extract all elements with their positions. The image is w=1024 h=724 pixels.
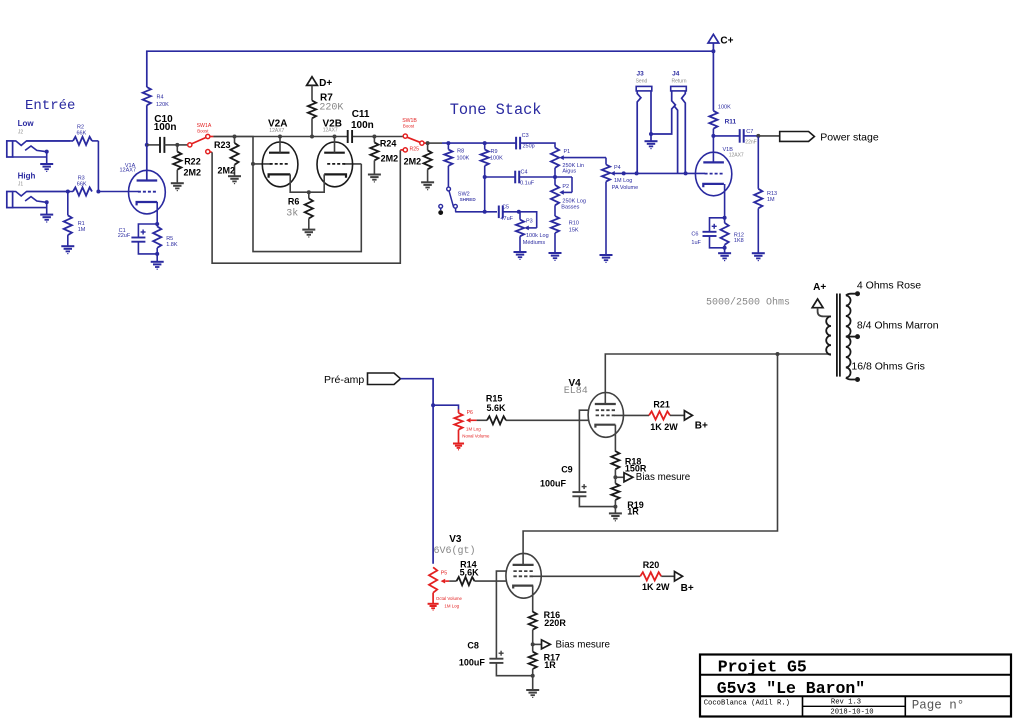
node P6 branch [431, 403, 435, 407]
svg-text:B+: B+ [695, 420, 708, 431]
svg-text:A+: A+ [813, 282, 826, 293]
capacitor C6 1uF [691, 224, 716, 246]
svg-text:C9: C9 [561, 464, 573, 474]
node bias tap V3 [531, 642, 535, 646]
wire R4 to plate/C10 node [146, 105, 148, 180]
wire R9 bottom bus [484, 177, 486, 212]
svg-text:P1: P1 [564, 149, 571, 155]
svg-text:R21: R21 [653, 400, 670, 410]
svg-text:P2: P2 [562, 184, 569, 190]
svg-text:120K: 120K [156, 102, 169, 108]
jack J3 Send [636, 71, 652, 174]
ground P5 (red) [428, 603, 439, 605]
svg-text:P4: P4 [614, 165, 621, 171]
wire V4 cathode to R18 [614, 425, 616, 452]
potentiometer P1 250K Lin Aigus [551, 148, 606, 175]
svg-text:2M2: 2M2 [381, 153, 399, 163]
svg-text:1M Log: 1M Log [444, 603, 459, 608]
node P1/P2/C4 junction [553, 175, 557, 179]
wire V4 screen to R21 [615, 414, 650, 416]
svg-text:C3: C3 [522, 133, 529, 139]
svg-text:Power stage: Power stage [820, 131, 879, 143]
svg-text:2018-10-10: 2018-10-10 [830, 709, 873, 717]
node junction R1 on grid line [66, 190, 70, 194]
svg-text:1K8: 1K8 [734, 238, 744, 244]
wire C+ to R11 [712, 51, 714, 111]
wire C6 bottom [710, 236, 725, 248]
svg-text:Bias mesure: Bias mesure [636, 472, 691, 483]
wire V2A grid [253, 163, 272, 165]
pentode V3 6V6(gt) [434, 534, 542, 598]
ground V1B cathode [718, 252, 731, 254]
svg-text:16/8 Ohms Gris: 16/8 Ohms Gris [851, 361, 925, 373]
svg-text:250K Log: 250K Log [562, 198, 586, 204]
svg-text:100k Log: 100k Log [526, 233, 549, 239]
svg-text:PA Volume: PA Volume [612, 185, 639, 191]
node R23 junction [233, 135, 237, 139]
node C7/R13 junction [756, 134, 760, 138]
resistor R13 1M [754, 136, 777, 253]
wire V2B plate stub [334, 137, 336, 153]
svg-text:15K: 15K [569, 228, 579, 234]
svg-text:Octal Volume: Octal Volume [436, 596, 463, 601]
svg-text:R24: R24 [380, 138, 397, 148]
svg-text:R4: R4 [157, 95, 164, 101]
wire C8 bottom to ground node [496, 663, 532, 676]
resistor R6 3k [286, 192, 313, 229]
wire V4 g3 to C9 [579, 410, 588, 492]
svg-text:J2: J2 [18, 129, 24, 135]
svg-text:Basses: Basses [561, 205, 579, 211]
node bias tap V4 [613, 475, 617, 479]
svg-text:5.6K: 5.6K [460, 567, 480, 577]
resistor R14 5.6K [449, 559, 479, 585]
node P4 wiper junction [622, 171, 626, 175]
svg-text:B+: B+ [681, 583, 694, 594]
tap 16/8 Ohms (Gris) [846, 361, 925, 382]
resistor R12 1K8 [721, 218, 744, 253]
svg-text:1M Log: 1M Log [614, 178, 632, 184]
svg-text:5000/2500 Ohms: 5000/2500 Ohms [706, 296, 790, 308]
svg-text:C6: C6 [691, 231, 698, 237]
wire C1 bottom [138, 242, 157, 254]
svg-text:CocoBlanca (Adil R.): CocoBlanca (Adil R.) [704, 699, 790, 707]
resistor R17 1R [529, 644, 561, 690]
wire cathode to C1 [138, 224, 157, 238]
node R6 junction [307, 190, 311, 194]
svg-text:Aigus: Aigus [562, 168, 576, 174]
node V2A grid junction [251, 162, 255, 166]
node C10 junction [145, 143, 149, 147]
power symbol D+ [307, 77, 333, 101]
wire V3 cathode to R16 [532, 586, 534, 613]
wire grid line to V1A [98, 191, 138, 193]
switch SW2 SHRED [447, 187, 477, 212]
ground R23 [228, 175, 241, 177]
svg-text:100K: 100K [490, 156, 503, 162]
wire R2 to High line [97, 141, 99, 192]
node C+ rail junction [711, 49, 715, 53]
node R7 plate junction [310, 135, 314, 139]
tap 4 Ohms (Rose) [846, 279, 921, 296]
wire boost bypass loop (outer) [212, 150, 400, 263]
wire C+ rail [147, 51, 714, 87]
wire V3 screen to R20 [532, 575, 640, 577]
wire V2A plate stub [279, 137, 281, 153]
svg-text:R20: R20 [643, 560, 660, 570]
ground P3 [514, 251, 527, 253]
svg-text:100n: 100n [154, 122, 177, 133]
potentiometer P4 1M Log PA Volume [602, 165, 638, 191]
svg-text:0.1uF: 0.1uF [520, 181, 535, 187]
svg-text:220R: 220R [544, 618, 566, 628]
ground R22 [171, 182, 184, 184]
svg-text:G5v3 "Le Baron": G5v3 "Le Baron" [717, 679, 866, 698]
resistor R19 1R [611, 477, 644, 516]
potentiometer P3 100k Log Mediums [516, 212, 549, 252]
ground V4 cathode [609, 512, 622, 514]
svg-text:P6: P6 [467, 410, 473, 416]
switch SW1A Boost [177, 123, 213, 154]
svg-text:C+: C+ [720, 36, 733, 47]
svg-text:High: High [18, 172, 36, 181]
node R24 junction [372, 135, 376, 139]
svg-text:4 Ohms Rose: 4 Ohms Rose [857, 279, 921, 291]
wire SW1B common to tone stack [428, 142, 442, 144]
wire R14 to V3 grid [475, 580, 507, 582]
svg-text:R8: R8 [457, 149, 464, 155]
wire V3 g3 to C8 [496, 571, 506, 659]
resistor R10 15K [551, 216, 579, 253]
svg-text:P5: P5 [441, 571, 447, 577]
svg-text:Entrée: Entrée [25, 98, 75, 114]
wire grid net P4 to V1B [624, 172, 705, 174]
triode V2A 12AX7 [262, 119, 298, 187]
wire V1B cathode [724, 184, 726, 218]
svg-text:100n: 100n [351, 120, 374, 131]
ground V3 cathode [526, 689, 539, 691]
node J3 sleeve junction [649, 132, 653, 136]
capacitor C1 22uF [118, 228, 146, 242]
wire P4 bottom to ground [605, 182, 607, 255]
resistor R8 100K [444, 143, 469, 187]
capacitor C8 100uF [459, 640, 504, 667]
ground P6 (red) [453, 443, 464, 445]
svg-text:1R: 1R [544, 660, 556, 670]
tap 8/4 Ohms (Marron) [846, 319, 939, 339]
title block frame [700, 655, 1011, 717]
svg-text:66K: 66K [77, 181, 87, 187]
node R9 top [483, 141, 487, 145]
svg-text:1uF: 1uF [691, 240, 701, 246]
svg-text:1K 2W: 1K 2W [642, 582, 670, 592]
svg-text:R5: R5 [166, 236, 173, 242]
arrow B+ (V3) [675, 572, 694, 594]
resistor R15 5.6K [477, 394, 506, 425]
svg-text:Pré-amp: Pré-amp [324, 374, 364, 386]
svg-text:Return: Return [672, 78, 687, 84]
svg-text:100uF: 100uF [459, 657, 486, 667]
svg-text:220K: 220K [319, 103, 343, 114]
svg-text:R6: R6 [288, 197, 300, 207]
svg-text:Noval Volume: Noval Volume [462, 433, 490, 438]
wire V4 plate to transformer [605, 354, 831, 404]
svg-text:R15: R15 [486, 394, 503, 404]
svg-text:250p: 250p [523, 144, 535, 150]
potentiometer P2 250K Log Basses [551, 177, 586, 211]
triode V2B 12AX7 [317, 119, 353, 187]
switch SW1B Boost [374, 118, 427, 152]
ground V1A cathode [151, 261, 164, 263]
node J3 tip junction [635, 171, 639, 175]
svg-text:SHRED: SHRED [460, 197, 477, 202]
svg-text:12AX7: 12AX7 [269, 128, 284, 134]
capacitor C10 100n [147, 114, 178, 153]
svg-text:22nF: 22nF [745, 140, 756, 146]
jack J1 (High input) [7, 192, 70, 223]
svg-text:47uF: 47uF [501, 216, 514, 222]
resistor R20 1K 2W [640, 560, 674, 592]
svg-text:1M: 1M [78, 227, 86, 233]
svg-text:D+: D+ [319, 78, 332, 89]
transformer T1 primary 5000/2500 Ohms [706, 296, 831, 354]
wire V2A cathode to R6 [290, 174, 309, 192]
svg-text:12AX7: 12AX7 [729, 153, 744, 159]
node transformer junction [776, 352, 780, 356]
svg-text:Page n°: Page n° [912, 699, 965, 713]
svg-text:Médiums: Médiums [523, 240, 546, 246]
connector pins SW2 [438, 204, 443, 215]
svg-text:22uF: 22uF [118, 233, 131, 239]
node C4 junction [483, 175, 487, 179]
svg-text:R25: R25 [410, 146, 420, 152]
arrow B+ (V4) [684, 411, 708, 432]
resistor R25 2M2 [404, 143, 432, 182]
resistor R18 150R [611, 451, 647, 477]
resistor R23 2M2 [214, 137, 239, 177]
wire Pre-amp to volume pots [401, 379, 434, 564]
svg-text:1R: 1R [627, 506, 639, 516]
ground P4 [600, 254, 613, 256]
svg-text:C8: C8 [467, 640, 479, 650]
svg-text:2M2: 2M2 [218, 166, 236, 176]
svg-text:100K: 100K [457, 155, 470, 161]
node R11/C7 junction [711, 134, 715, 138]
potentiometer P5 1M Log Octal Volume [429, 567, 463, 608]
svg-text:Bias mesure: Bias mesure [556, 639, 611, 650]
wire SW2 to C5 [455, 211, 497, 213]
ground R25 [421, 181, 434, 183]
svg-text:R22: R22 [184, 157, 201, 167]
svg-text:5.6K: 5.6K [487, 403, 507, 413]
node junction R2/R3 [96, 190, 100, 194]
capacitor C9 100uF [540, 464, 587, 496]
capacitor C11 100n [348, 109, 374, 143]
wire P1 wiper to P4 [605, 158, 607, 165]
triode V1B 12AX7 [695, 147, 744, 196]
wire P2 bottom to R10 [554, 205, 556, 216]
ground R1 [61, 245, 74, 247]
wire C3 to P1 [520, 143, 555, 147]
jack J4 Return [651, 71, 687, 174]
wire V3 plate riser to transformer [523, 354, 777, 565]
resistor R9 100K [481, 143, 504, 177]
node C5 junction [483, 210, 487, 214]
power symbol C+ [708, 34, 734, 51]
resistor R3 66K [27, 175, 93, 195]
svg-text:1M Log: 1M Log [466, 427, 481, 432]
resistor R21 1K 2W [649, 400, 684, 433]
svg-text:Send: Send [636, 78, 648, 84]
svg-text:P3: P3 [526, 218, 533, 224]
svg-text:R23: R23 [214, 140, 231, 150]
svg-text:6V6(gt): 6V6(gt) [434, 545, 476, 557]
svg-text:2M2: 2M2 [184, 168, 202, 178]
svg-text:R9: R9 [491, 149, 498, 155]
ground R13 [752, 252, 765, 254]
wire V2B grid [344, 163, 362, 165]
svg-text:1.8K: 1.8K [166, 242, 178, 248]
svg-text:100K: 100K [718, 104, 731, 110]
svg-text:Boost: Boost [403, 124, 415, 129]
svg-text:12AX7: 12AX7 [323, 128, 338, 134]
wire tone stack input net [442, 142, 516, 144]
wire A+ to primary [818, 308, 831, 317]
node V3 ground junction [531, 674, 535, 678]
node R22 junction [175, 143, 179, 147]
svg-text:66K: 66K [77, 130, 87, 136]
potentiometer P6 1M Log Noval Volume [454, 410, 490, 444]
svg-text:Rev 1.3: Rev 1.3 [831, 698, 861, 706]
wire R15 to V4 grid [506, 419, 588, 421]
resistor R7 220K [308, 93, 344, 137]
resistor R22 2M2 [173, 145, 201, 183]
svg-text:Tone Stack: Tone Stack [450, 101, 542, 119]
svg-text:2M2: 2M2 [404, 157, 422, 167]
resistor R5 1.8K [153, 224, 178, 262]
svg-text:C7: C7 [746, 129, 753, 135]
svg-text:J4: J4 [672, 71, 680, 78]
node V4 ground junction [613, 505, 617, 509]
svg-text:1K 2W: 1K 2W [650, 422, 678, 432]
ground J3 sleeve [650, 134, 652, 141]
ground R24 [368, 174, 381, 176]
wire inner loop V2A grid to V2B grid [253, 164, 361, 252]
resistor R24 2M2 [370, 137, 398, 175]
svg-text:C11: C11 [352, 109, 370, 120]
wire SW1A to R23 and V2 grids [213, 137, 253, 164]
arrow Bias mesure (V3) [533, 639, 611, 650]
node R25 junction [426, 141, 430, 145]
svg-text:C4: C4 [521, 170, 528, 176]
arrow Bias mesure (V4) [615, 472, 690, 483]
tag Power stage [758, 131, 879, 143]
svg-text:12AX7: 12AX7 [120, 168, 137, 174]
resistor R4 120K [143, 87, 169, 108]
svg-text:8/4 Ohms Marron: 8/4 Ohms Marron [857, 319, 939, 331]
svg-text:J3: J3 [637, 71, 645, 78]
svg-text:1M: 1M [767, 197, 775, 203]
wire V1A cathode [156, 202, 158, 224]
wire plate rail V2 [213, 136, 347, 138]
capacitor C5 47uF [499, 205, 519, 223]
resistor R11 100K [709, 104, 736, 163]
svg-text:Projet G5: Projet G5 [718, 658, 807, 677]
triode V1A 12AX7 [120, 163, 166, 214]
svg-text:R11: R11 [725, 119, 737, 126]
tag Pre-amp [324, 373, 401, 386]
ground R6 [302, 229, 315, 231]
resistor R2 66K [27, 124, 99, 145]
capacitor C7 22nF [713, 129, 758, 146]
svg-text:Boost: Boost [197, 129, 209, 134]
capacitor C4 0.1uF [485, 170, 572, 187]
resistor R1 1M [64, 192, 86, 247]
wire C9 bottom to ground node [579, 496, 615, 506]
svg-text:Low: Low [18, 119, 35, 128]
svg-text:V3: V3 [449, 534, 462, 545]
svg-text:EL84: EL84 [564, 386, 588, 397]
wire P1 bottom to P2 top [554, 168, 556, 185]
svg-text:C5: C5 [502, 205, 509, 211]
wire cathode to C6 [710, 218, 725, 232]
svg-text:3k: 3k [286, 208, 298, 220]
svg-text:R10: R10 [569, 221, 579, 227]
wire V2B cathode to R6 [309, 174, 324, 192]
transformer secondary [846, 295, 851, 377]
node J4 tip junction [684, 171, 688, 175]
jack J2 (Low input) [7, 141, 70, 172]
resistor R16 220R [529, 610, 567, 645]
svg-text:100uF: 100uF [540, 479, 567, 489]
transformer core [836, 294, 838, 377]
wire branch to P6 [433, 405, 458, 409]
node P3 junction [517, 210, 521, 214]
pentode V4 EL84 [564, 378, 624, 438]
power symbol A+ [812, 282, 826, 308]
ground R10 [549, 252, 562, 254]
svg-text:J1: J1 [18, 181, 24, 187]
capacitor C3 250p [516, 133, 535, 150]
node R8 top [446, 141, 450, 145]
